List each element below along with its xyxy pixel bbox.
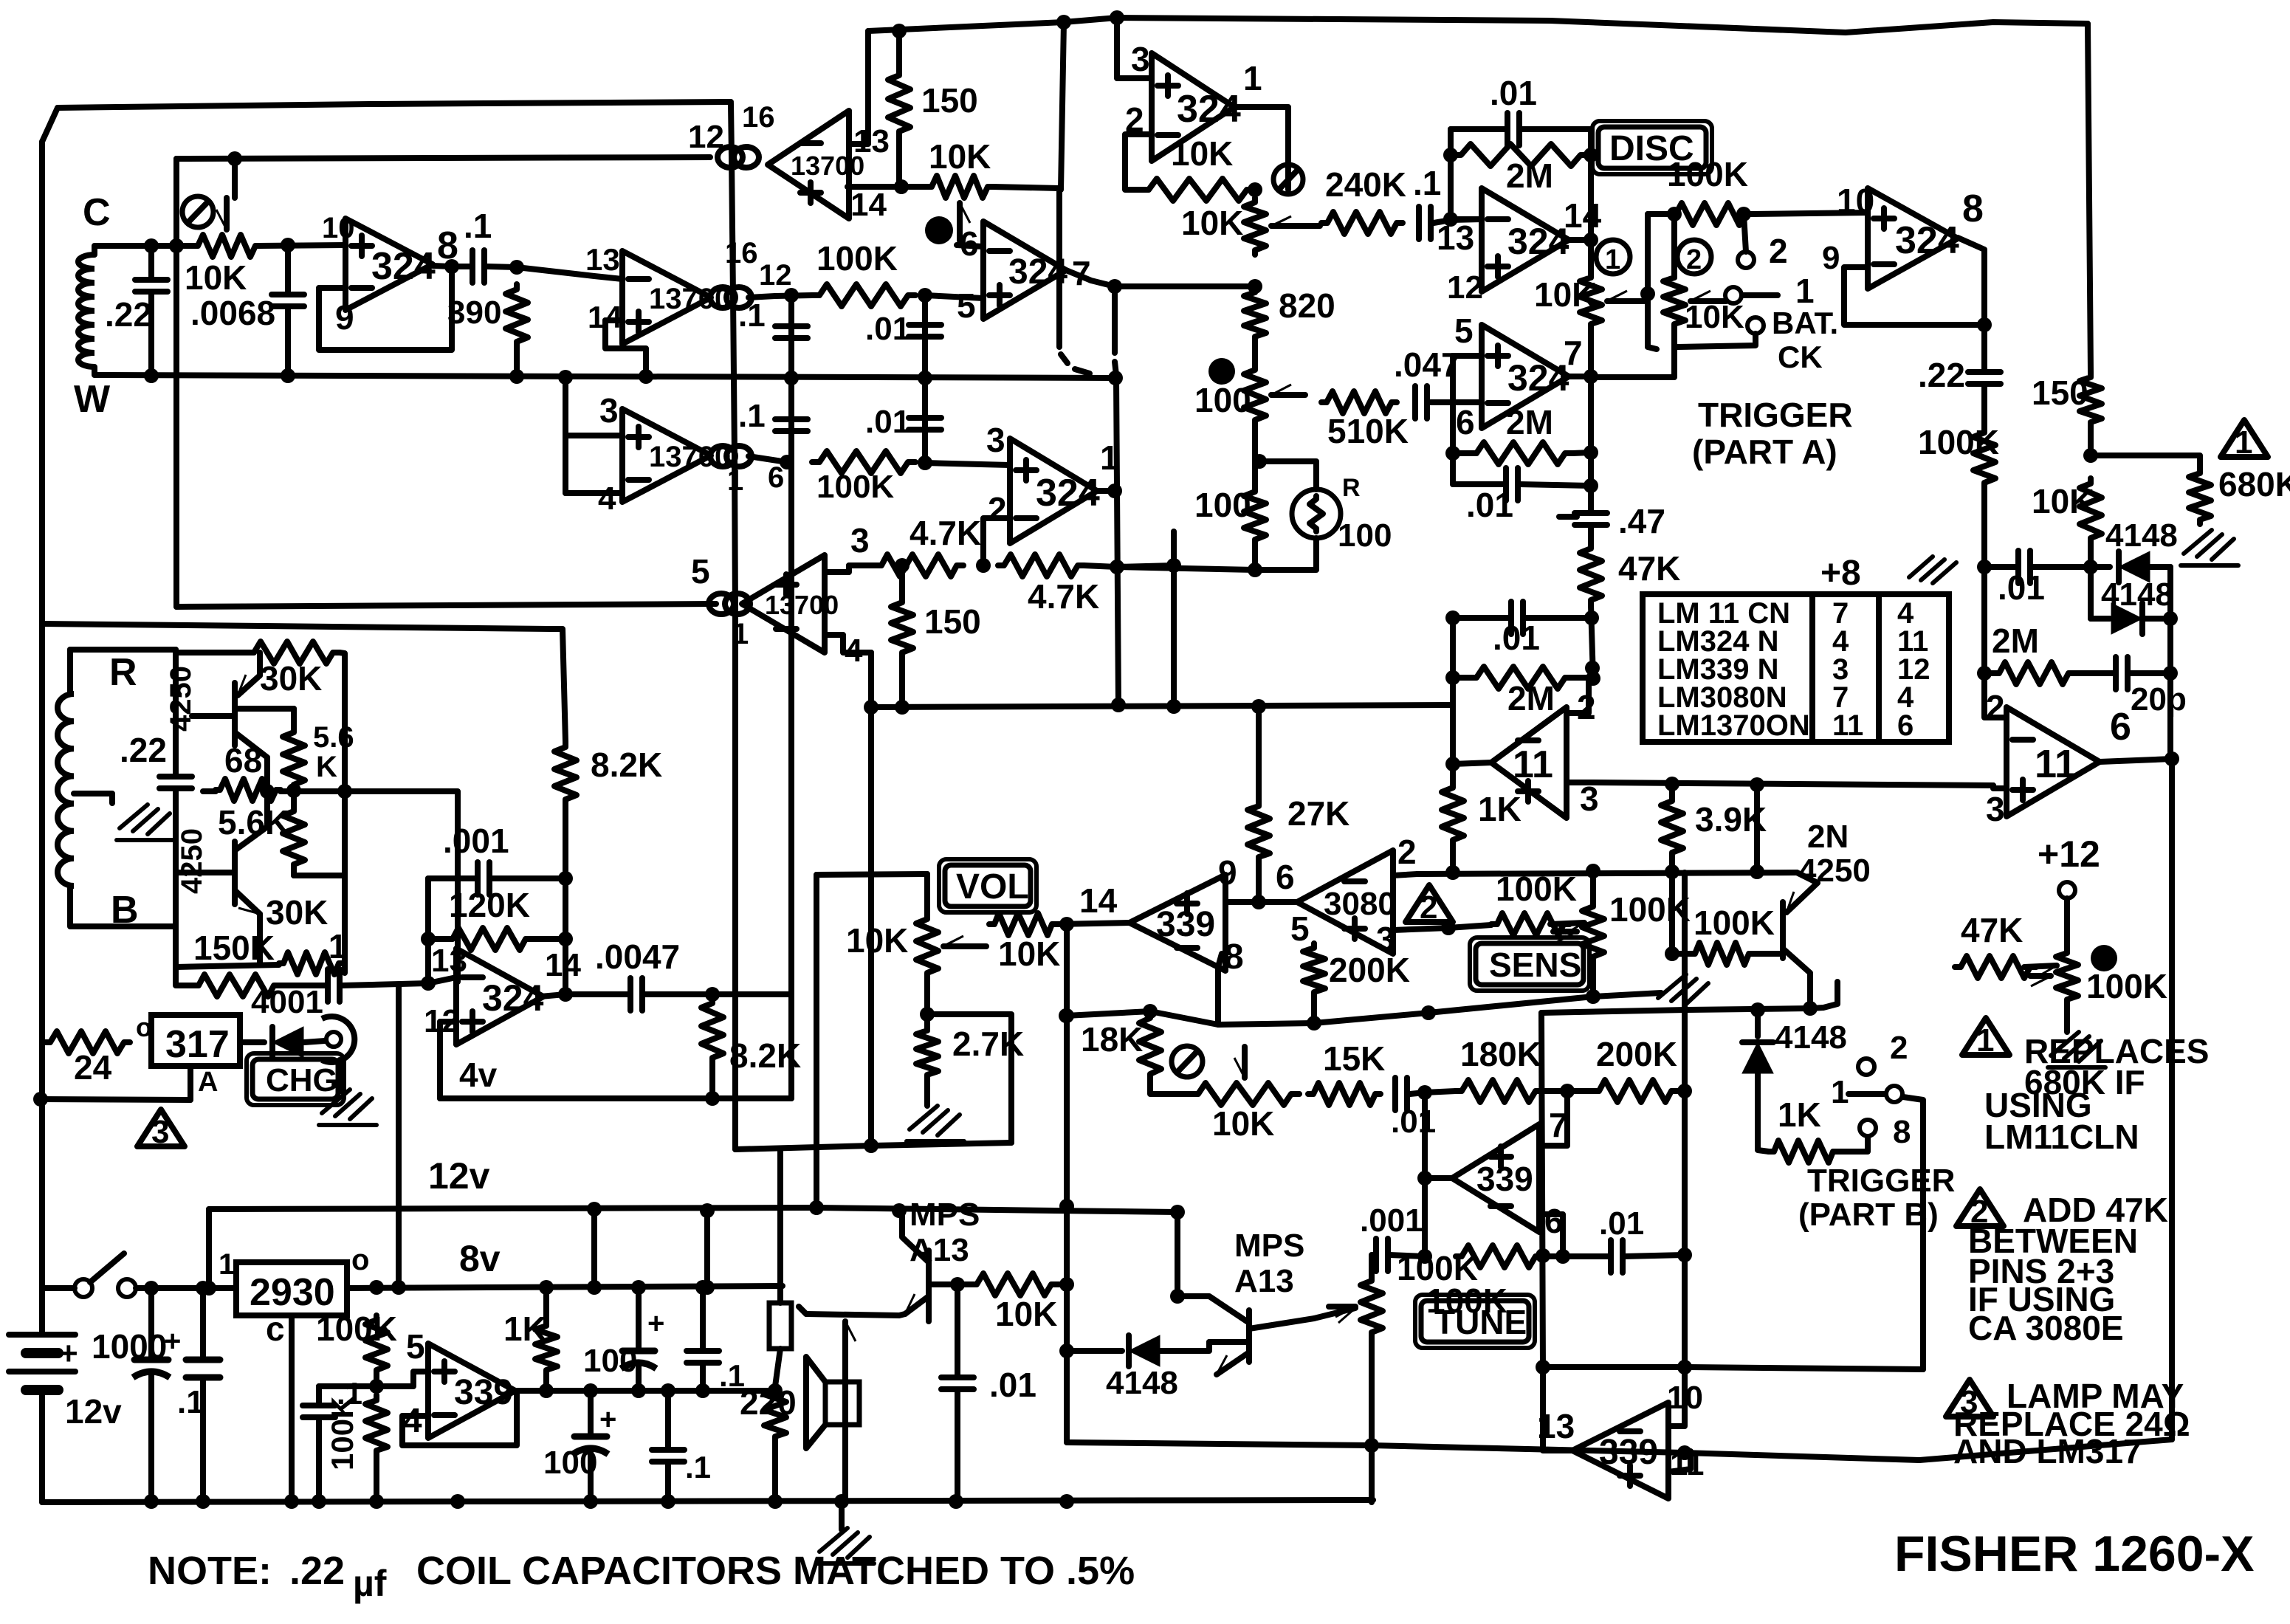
capacitor C22 .01 (1392, 1078, 1398, 1110)
junction rail x1106 node (809, 1200, 824, 1215)
resistor R29 47K (1580, 543, 1602, 605)
wire U4 pin4 stub (825, 635, 871, 653)
wire x1930 vertical (1422, 1093, 1428, 1256)
wire ground rail (42, 1500, 1373, 1502)
svg-text:SENS: SENS (1489, 946, 1581, 984)
wire C10 to U7 (343, 977, 456, 985)
resistor R14 5.6K (283, 806, 305, 870)
svg-text:12: 12 (688, 119, 724, 155)
resistor R39 2M (1993, 662, 2074, 684)
resistor R47 100K (1491, 913, 1569, 935)
wire U2 out wire (749, 296, 775, 297)
potentiometer R34 10K trigA2 (1663, 273, 1685, 328)
junction C21 r node (2163, 666, 2178, 681)
junction node R20 right (1248, 182, 1262, 197)
wire meter top loop (1259, 461, 1316, 489)
wire U4 pin3 stub (825, 565, 849, 572)
junction gnd rail dot 620 (450, 1494, 465, 1509)
junction node 2688 768 (1977, 560, 1992, 574)
wire C18 row l (1453, 615, 1510, 621)
junction U16 out node (1417, 1171, 1432, 1186)
resistor R36 150 (2080, 373, 2102, 427)
wire BAT wire (1677, 334, 1756, 347)
resistor R2 390 (506, 284, 528, 347)
wire W818 bus (176, 604, 716, 607)
svg-text:7: 7 (1564, 334, 1583, 372)
wire A6 pin2 lead (983, 518, 1010, 565)
diode D2 4148 (2119, 551, 2150, 582)
wire W617 branch (2091, 455, 2200, 469)
wire W1958 (1067, 1439, 2172, 1460)
wire x2940 vertical (2167, 567, 2173, 759)
junction x2155 919 node (1586, 671, 1600, 686)
resistor R18 8.2K (701, 998, 723, 1063)
resistor R61 220 (764, 1386, 786, 1441)
resistor R30 2M (1469, 667, 1572, 689)
op-amp U2 LM13700 13/14/16 (622, 251, 711, 344)
warning triangle warning 3 note (1946, 1380, 1993, 1417)
OTA output symbol U2 output (710, 287, 735, 308)
resistor R60 10K (971, 1273, 1057, 1296)
wire W1884 out row (546, 1388, 775, 1394)
svg-text:150: 150 (2032, 374, 2088, 412)
svg-text:10K: 10K (1171, 134, 1233, 173)
speaker drive arrow (842, 1321, 848, 1362)
wire R48 bottom lead (1590, 961, 1596, 995)
svg-text:14: 14 (1079, 881, 1118, 920)
wire R6 to A6 pin3 (925, 463, 1010, 465)
op-amp U7 LM324 13/12/14 (456, 949, 543, 1045)
junction node R5 right (918, 288, 932, 303)
wire piezo top lead (777, 1149, 783, 1303)
svg-text:2: 2 (1420, 890, 1437, 926)
wire row1480 wire b (1541, 1088, 1593, 1094)
svg-text:4148: 4148 (2105, 517, 2178, 554)
wire x239 vertical (173, 159, 179, 607)
svg-text:324: 324 (1008, 252, 1067, 292)
wire 12v drop to switch (206, 1209, 212, 1288)
potentiometer R43 10K VOL (916, 914, 938, 978)
svg-text:5: 5 (691, 552, 710, 591)
svg-text:.22: .22 (105, 295, 152, 334)
junction x1444 W1380 node (1059, 1008, 1074, 1023)
capacitor C19 .22 (1968, 369, 2001, 375)
junction Q4 collector node (1170, 1289, 1185, 1304)
svg-text:3: 3 (1986, 790, 2005, 828)
svg-text:324: 324 (482, 977, 544, 1019)
junction pin3 1K node (1441, 921, 1456, 935)
resistor R17 120K (447, 928, 532, 950)
svg-text:LM11CLN: LM11CLN (1984, 1118, 2139, 1156)
svg-text:MPS: MPS (1234, 1228, 1304, 1264)
wire R65 bottom lead (543, 1374, 549, 1391)
svg-text:.01: .01 (1599, 1205, 1644, 1242)
junction x580 mid node (421, 932, 436, 946)
junction rail x1595 node (1170, 1205, 1185, 1219)
svg-text:150K: 150K (193, 929, 275, 967)
svg-text:100K: 100K (1496, 870, 1577, 908)
junction gnd rail dot 1445 (1059, 1494, 1074, 1509)
junction drop b row dot (700, 1280, 715, 1295)
junction 8v rail dot 510 (369, 1280, 384, 1295)
resistor R58 200K (1593, 1080, 1677, 1102)
junction W1830 x1444 node (1059, 1343, 1074, 1358)
op-amp U18 LM339 13/10/11 (1572, 1403, 1668, 1499)
svg-text:100: 100 (1338, 517, 1392, 554)
junction row1480 x2123 (1560, 1084, 1575, 1098)
wire term1B wire (1849, 1091, 1885, 1097)
op-amp U5 LM13700 top left-facing (768, 111, 849, 219)
svg-text:1K: 1K (503, 1310, 547, 1348)
svg-text:4v: 4v (459, 1056, 498, 1094)
svg-text:1: 1 (1605, 244, 1620, 275)
capacitor C5 .01 upper (909, 322, 941, 328)
panel label TUNE (1421, 1301, 1529, 1342)
junction C11 right node (558, 871, 573, 886)
wire VR1 adj lead (188, 1066, 193, 1100)
svg-text:11: 11 (1832, 709, 1863, 742)
op-amp U11 LM11 2/3/out (1491, 707, 1567, 818)
svg-text:+: + (599, 1403, 616, 1436)
junction node R2 top (509, 260, 524, 275)
wire 12v rail (209, 1208, 1177, 1212)
svg-text:6: 6 (768, 461, 784, 494)
wire U5 pin13 riser (849, 31, 868, 144)
wire R28 row l (1453, 450, 1469, 456)
svg-text:.1: .1 (738, 297, 766, 334)
op-amp U14 LM339 9/8/14 (1129, 875, 1225, 971)
junction W1380 dot 1444 (1059, 1008, 1073, 1023)
svg-text:FISHER 1260-X: FISHER 1260-X (1894, 1526, 2255, 1582)
svg-text:100: 100 (583, 1343, 637, 1379)
svg-text:16: 16 (725, 237, 758, 269)
junction gnd rail dot 1050 (768, 1494, 783, 1509)
wire R49 left lead (1672, 951, 1691, 957)
svg-text:CA 3080E: CA 3080E (1968, 1309, 2124, 1347)
junction row1702 x1930 (1417, 1249, 1432, 1264)
wire U1 out (433, 266, 470, 266)
junction bus dot 1513 (1110, 10, 1124, 25)
junction R28 r node (1584, 445, 1598, 460)
wire R40 bottom (1450, 845, 1456, 873)
junction U9 out node (1584, 233, 1598, 247)
wire R34 top lead (1671, 214, 1677, 273)
svg-text:200K: 200K (1596, 1035, 1677, 1073)
wire top-left border (58, 102, 731, 108)
junction node W628 left (780, 455, 794, 469)
svg-text:20p: 20p (2131, 681, 2187, 718)
wire R17 row r (532, 936, 565, 942)
svg-text:1: 1 (1795, 272, 1815, 310)
svg-text:10: 10 (322, 212, 355, 244)
svg-text:100K: 100K (2086, 967, 2167, 1005)
wire R46 bottom (1311, 997, 1317, 1022)
wire R42 bottom lead (1256, 862, 1262, 902)
svg-text:10K: 10K (1534, 275, 1596, 314)
potentiometer R4 10K (927, 176, 992, 198)
junction bus dot 1441 (1056, 15, 1071, 30)
wire R23 bottom (1252, 341, 1258, 365)
junction meter bot node (1248, 562, 1262, 577)
wire x1072 vertical (788, 295, 794, 1098)
resistor R24 2M (1451, 144, 1591, 166)
wire W1485 adj wire (38, 1099, 190, 1100)
wire preamp right vertical (340, 653, 345, 973)
svg-text:BAT.: BAT. (1772, 306, 1838, 340)
svg-text:C: C (83, 191, 111, 234)
svg-text:4148: 4148 (1775, 1019, 1847, 1056)
op-amp U9 LM324 13/12/14 (1482, 188, 1569, 292)
wire R27 bottom (1252, 544, 1258, 570)
capacitor C6 .01 lower (909, 415, 941, 421)
junction gnd rail dot 1295 (949, 1494, 963, 1509)
svg-text:13: 13 (431, 943, 467, 979)
wire D4 bottom lead (1758, 1072, 1769, 1152)
wire U15 pin3 stub (1393, 928, 1448, 930)
op-amp U10 LM324 5/6/7 (1482, 325, 1569, 428)
panel label VOL (945, 865, 1031, 906)
wire 12v drop b (704, 1208, 710, 1287)
wire x2090 vertical (1541, 1013, 1543, 1367)
wire W958 row (871, 705, 1453, 707)
resistor R51 47K (1955, 956, 2036, 978)
svg-text:324: 324 (1507, 357, 1569, 399)
svg-text:.1: .1 (685, 1450, 711, 1484)
R51 arrow (2024, 966, 2057, 967)
transistor Q1b 2N4250 lower (232, 842, 238, 904)
junction W1180 2380 node (1750, 864, 1764, 879)
svg-text:2: 2 (988, 490, 1007, 529)
resistor R55 15K (1308, 1083, 1380, 1105)
svg-text:10K: 10K (846, 921, 908, 960)
svg-text:100K: 100K (1397, 1249, 1478, 1287)
svg-text:324: 324 (1895, 219, 1959, 262)
svg-text:1K: 1K (1478, 790, 1521, 828)
wire row1480 wire a (1425, 1091, 1456, 1093)
resistor R23 820 (1244, 288, 1266, 341)
junction U11 out node (1445, 757, 1460, 771)
wire W1852 trigB bottom (1543, 1367, 1923, 1369)
wire A3 out (1234, 107, 1288, 190)
svg-text:2M: 2M (1506, 156, 1553, 195)
resistor R40 1K (1442, 782, 1464, 845)
wire W772 meter row (1117, 567, 1255, 570)
svg-text:COIL CAPACITORS MATCHED TO .5%: COIL CAPACITORS MATCHED TO .5% (416, 1549, 1135, 1593)
wire R2 bottom lead (514, 347, 520, 376)
adjust symbol R4 (925, 216, 953, 244)
wire R30 row r (1572, 675, 1592, 681)
wire top rail to 30K (176, 650, 250, 656)
junction node R7-R8 (976, 558, 991, 573)
svg-text:1: 1 (2235, 424, 2252, 461)
junction W1380 dot 1558 (1143, 1004, 1158, 1019)
panel label SENS (1476, 943, 1584, 985)
svg-text:12v: 12v (428, 1155, 490, 1197)
svg-text:6: 6 (2110, 706, 2131, 749)
ground main ground (819, 1528, 847, 1552)
svg-text:W: W (74, 378, 111, 421)
junction R30 l node (1445, 670, 1460, 685)
wire A3 pin2 lead (1125, 134, 1152, 190)
ground +12 ground (2051, 1032, 2079, 1056)
diode D3 4148 (2111, 603, 2142, 634)
resistor R45 2.7K (916, 1026, 938, 1079)
svg-text:47K: 47K (1961, 911, 2023, 949)
wire U16 out (1425, 1175, 1452, 1181)
svg-text:2.7K: 2.7K (952, 1025, 1024, 1063)
wire R10 bottom lead (563, 805, 568, 994)
junction W1368 D4 node (1750, 1002, 1765, 1017)
svg-text:10K: 10K (1181, 204, 1243, 242)
resistor R42 27K (1248, 801, 1270, 862)
svg-text:68: 68 (224, 741, 262, 780)
junction node 2832 768 (2083, 560, 2098, 574)
svg-text:6: 6 (1456, 403, 1475, 441)
svg-text:.22: .22 (120, 731, 167, 769)
svg-text:.1: .1 (319, 927, 347, 966)
wire x1441 riser (1061, 22, 1064, 190)
junction W958 dot 1222 (895, 700, 910, 715)
junction C16 r node (1584, 478, 1598, 493)
junction gnd rail dot 275 (196, 1494, 210, 1509)
terminal terminal 1 trigB (1886, 1086, 1902, 1102)
junction W958 dot 1590 (1166, 699, 1181, 714)
resistor R6 100K (812, 451, 915, 473)
wire top bus A (868, 18, 2088, 32)
svg-text:(PART A): (PART A) (1692, 433, 1837, 471)
svg-text:.1: .1 (1413, 164, 1441, 202)
svg-text:1: 1 (219, 1248, 235, 1281)
wire pin3 row to R47 (1448, 925, 1491, 928)
wire row1186 (294, 873, 345, 878)
svg-text:324: 324 (1177, 88, 1241, 131)
junction 12v drop b dot (700, 1203, 715, 1218)
junction right bus 617 node (2083, 448, 2098, 463)
wire W1185 wire (816, 874, 927, 875)
ground 680K ground (2184, 530, 2212, 554)
wire x540 vertical (396, 986, 402, 1287)
junction 8v rail dot 865 (631, 1280, 646, 1295)
wire R39 row l (1984, 670, 1993, 676)
resistor R5 100K (812, 284, 915, 306)
svg-text:15K: 15K (1323, 1039, 1385, 1078)
svg-text:A13: A13 (1234, 1263, 1294, 1299)
svg-text:47K: 47K (1618, 549, 1680, 588)
wire D2 left lead (2091, 564, 2110, 570)
adjust symbol R52 (2091, 945, 2117, 971)
junction W1062 3.9K node (1665, 777, 1679, 791)
svg-text:6: 6 (1897, 709, 1914, 742)
junction rail dot 766 (558, 370, 573, 385)
junction x2232 wiper node (1640, 286, 1655, 301)
wire C1 top lead (148, 246, 154, 280)
terminal terminal 2 trigB (1858, 1059, 1874, 1075)
capacitor C15 .047 (1412, 386, 1418, 419)
junction row1480 x1930 (1417, 1085, 1432, 1100)
svg-text:.01: .01 (865, 311, 910, 347)
junction W958 dot 1515 (1111, 698, 1126, 712)
wire U15 out wire (1259, 899, 1297, 905)
wire U18 out (1543, 1367, 1572, 1451)
junction R43 bot branch (920, 1007, 935, 1022)
svg-text:5: 5 (957, 286, 976, 325)
svg-text:4250: 4250 (176, 828, 208, 894)
potentiometer R52 100K (2056, 949, 2078, 1004)
junction Q3 base node (950, 1277, 965, 1292)
wire x1180 vertical (868, 653, 874, 1146)
junction node x1072 top (784, 288, 799, 303)
junction row1702 x2090 (1536, 1248, 1550, 1263)
panel label CHG (252, 1059, 338, 1099)
wire x2282 vertical (1682, 873, 1688, 1367)
junction R39 l node (1977, 666, 1992, 681)
resistor R28 2M (1469, 442, 1572, 464)
OTA output symbol U4 output (709, 593, 734, 614)
wire C26 column top (955, 1284, 960, 1376)
wire R16 left lead (176, 926, 192, 985)
op-amp A2 LM324 6/5/7 (983, 221, 1066, 319)
op-amp U1 LM324 10/9/8 (345, 219, 433, 310)
junction node C2 top (281, 238, 295, 252)
op-amp A3 LM324 3/2/1 top (1152, 53, 1234, 161)
wire R14 top lead (291, 791, 297, 806)
junction U12 fb node (1977, 317, 1992, 332)
svg-text:24: 24 (74, 1048, 112, 1087)
svg-text:18K: 18K (1081, 1020, 1143, 1059)
wire U12 fb (1844, 267, 1984, 325)
resistor R19 24 (44, 1031, 130, 1053)
svg-text:30K: 30K (266, 893, 328, 932)
wire U2 pin14 down (605, 320, 646, 376)
terminal terminal BAT (1747, 317, 1764, 334)
wire R4 left lead (899, 184, 927, 190)
wire R coil frame bottom (70, 886, 176, 926)
wire R9 top lead (899, 565, 905, 598)
resistor R16 150K (192, 974, 281, 997)
wire R coil frame top (67, 650, 73, 694)
wire x1590 down (1171, 565, 1177, 707)
junction W1488 R18 node (705, 1091, 720, 1106)
junction C10 node x580 (421, 976, 436, 991)
warning triangle warning 2 note (1956, 1189, 2004, 1226)
wire R52 bottom lead (2064, 1004, 2070, 1032)
wire R3 bottom lead (896, 137, 902, 187)
svg-text:100: 100 (1194, 381, 1251, 419)
svg-text:680K: 680K (2218, 465, 2290, 503)
wire left border corner (42, 108, 58, 142)
junction gnd rail dot 800 (583, 1494, 598, 1509)
svg-text:4.7K: 4.7K (910, 514, 981, 552)
junction gnd rail dot 395 (284, 1494, 299, 1509)
wire TUNE top lead (1372, 1255, 1375, 1276)
svg-text:100K: 100K (325, 1397, 360, 1470)
svg-text:3: 3 (1131, 40, 1150, 78)
svg-text:10K: 10K (2032, 482, 2094, 520)
wire row1480 wire c (1677, 1088, 1685, 1094)
wire jack ground lead (340, 1060, 341, 1091)
wire R14 bottom lead (291, 870, 297, 875)
wire R18 bottom lead (709, 1063, 715, 1098)
wire x1590 stub up (1171, 531, 1177, 565)
resistor R41 3.9K (1661, 796, 1683, 858)
svg-text:390: 390 (447, 295, 501, 331)
wire C18 row r (1524, 615, 1592, 621)
resistor R27 100 (1244, 487, 1266, 544)
capacitor C17 .47 (1575, 510, 1607, 516)
svg-text:30K: 30K (260, 659, 322, 698)
junction gnd rail dot 905 (661, 1494, 675, 1509)
resistor R32 100K (1670, 203, 1751, 225)
